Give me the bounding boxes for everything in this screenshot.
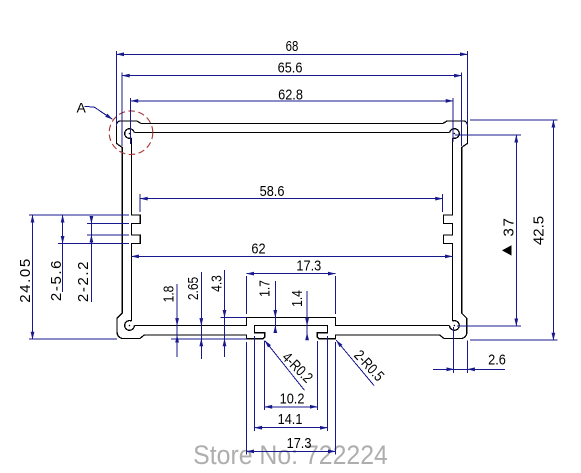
svg-text:2.65: 2.65 xyxy=(185,277,202,300)
dimension 1.8 xyxy=(176,284,178,357)
svg-text:1.8: 1.8 xyxy=(160,286,177,303)
dimension 2-5.6 xyxy=(58,215,129,292)
left wall inner with pcb ribs xyxy=(131,138,140,321)
svg-text:17.3: 17.3 xyxy=(287,434,312,451)
dimension 10.2 xyxy=(265,341,318,410)
profile outer contour xyxy=(116,121,467,339)
svg-text:1.7: 1.7 xyxy=(256,280,273,297)
leader 2-R0.5 xyxy=(336,340,374,385)
svg-text:4.3: 4.3 xyxy=(208,275,225,292)
dimension 37 xyxy=(455,135,521,326)
dimension 2-2.2 xyxy=(87,216,129,302)
boss center marks xyxy=(129,133,456,327)
dimension 14.1 xyxy=(255,336,328,431)
watermark xyxy=(193,441,388,470)
dimension 2.6 xyxy=(433,327,505,373)
svg-text:14.1: 14.1 xyxy=(278,410,303,427)
dimension 1.7 xyxy=(274,281,276,333)
svg-text:37: 37 xyxy=(501,217,518,237)
dimension 2.65 xyxy=(171,272,247,359)
svg-text:2-5.6: 2-5.6 xyxy=(48,259,65,301)
svg-text:62.8: 62.8 xyxy=(278,85,303,102)
svg-text:2-2.2: 2-2.2 xyxy=(75,260,92,302)
svg-text:42.5: 42.5 xyxy=(531,216,548,245)
svg-text:24.05: 24.05 xyxy=(17,257,34,303)
basic dim triangle for 37 xyxy=(502,245,512,255)
bottom wall inner line with raised channel floor xyxy=(134,318,449,326)
svg-text:58.6: 58.6 xyxy=(260,182,285,199)
dimension 62.8 xyxy=(131,98,454,144)
screw boss bottom-left xyxy=(125,321,135,331)
dimension 62 xyxy=(131,255,452,257)
screw boss bottom-right xyxy=(450,321,460,331)
svg-text:10.2: 10.2 xyxy=(280,389,305,406)
dimension 4.3 xyxy=(220,270,246,357)
label A with leader xyxy=(77,100,113,120)
profile inner contour xyxy=(125,129,460,331)
top wall inner line xyxy=(134,132,449,134)
screw boss top-left xyxy=(125,129,135,139)
svg-text:17.3: 17.3 xyxy=(296,257,321,274)
dimension 17.3 top xyxy=(247,274,336,314)
dimension 24.05 xyxy=(29,215,129,339)
svg-text:65.6: 65.6 xyxy=(278,58,303,75)
dimension 42.5 xyxy=(470,120,558,340)
leader 4-R0.2 xyxy=(265,341,305,391)
dimension 65.6 xyxy=(122,73,461,147)
screw boss top-right xyxy=(450,129,460,139)
dimension 1.4 xyxy=(306,291,308,340)
dimension 68 xyxy=(117,51,468,127)
detail circle A (red dashed) xyxy=(109,111,153,155)
svg-text:A: A xyxy=(77,100,87,116)
dimension 17.3 bottom xyxy=(247,342,336,455)
svg-text:62: 62 xyxy=(251,239,265,256)
right wall inner with pcb ribs xyxy=(444,138,453,321)
svg-text:2.6: 2.6 xyxy=(488,350,506,367)
svg-text:1.4: 1.4 xyxy=(289,290,306,307)
svg-text:68: 68 xyxy=(286,37,299,54)
dimension 58.6 xyxy=(140,194,443,212)
